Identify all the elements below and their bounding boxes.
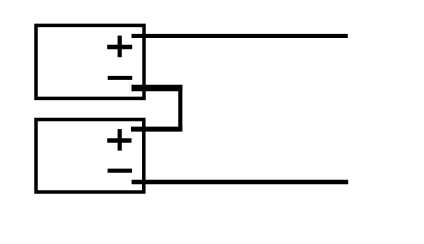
battery B1 negative terminal label (−) xyxy=(108,76,133,80)
wire segment: series link vertical drop xyxy=(178,85,182,131)
wire from B1 positive terminal to the right xyxy=(132,34,348,38)
wire segment: B1 negative terminal going right (series link, top run) xyxy=(132,85,183,91)
battery B2 (bottom cell body) xyxy=(36,120,144,193)
wire segment: series link bottom run to B2 positive terminal xyxy=(131,127,182,132)
battery B1 (top cell body) xyxy=(36,25,144,98)
battery B2 positive terminal label (+) xyxy=(107,129,131,151)
battery B2 negative terminal label (−) xyxy=(108,169,132,173)
wire from B2 negative terminal to the right xyxy=(132,180,349,185)
battery B1 positive terminal label (+) xyxy=(107,36,132,58)
